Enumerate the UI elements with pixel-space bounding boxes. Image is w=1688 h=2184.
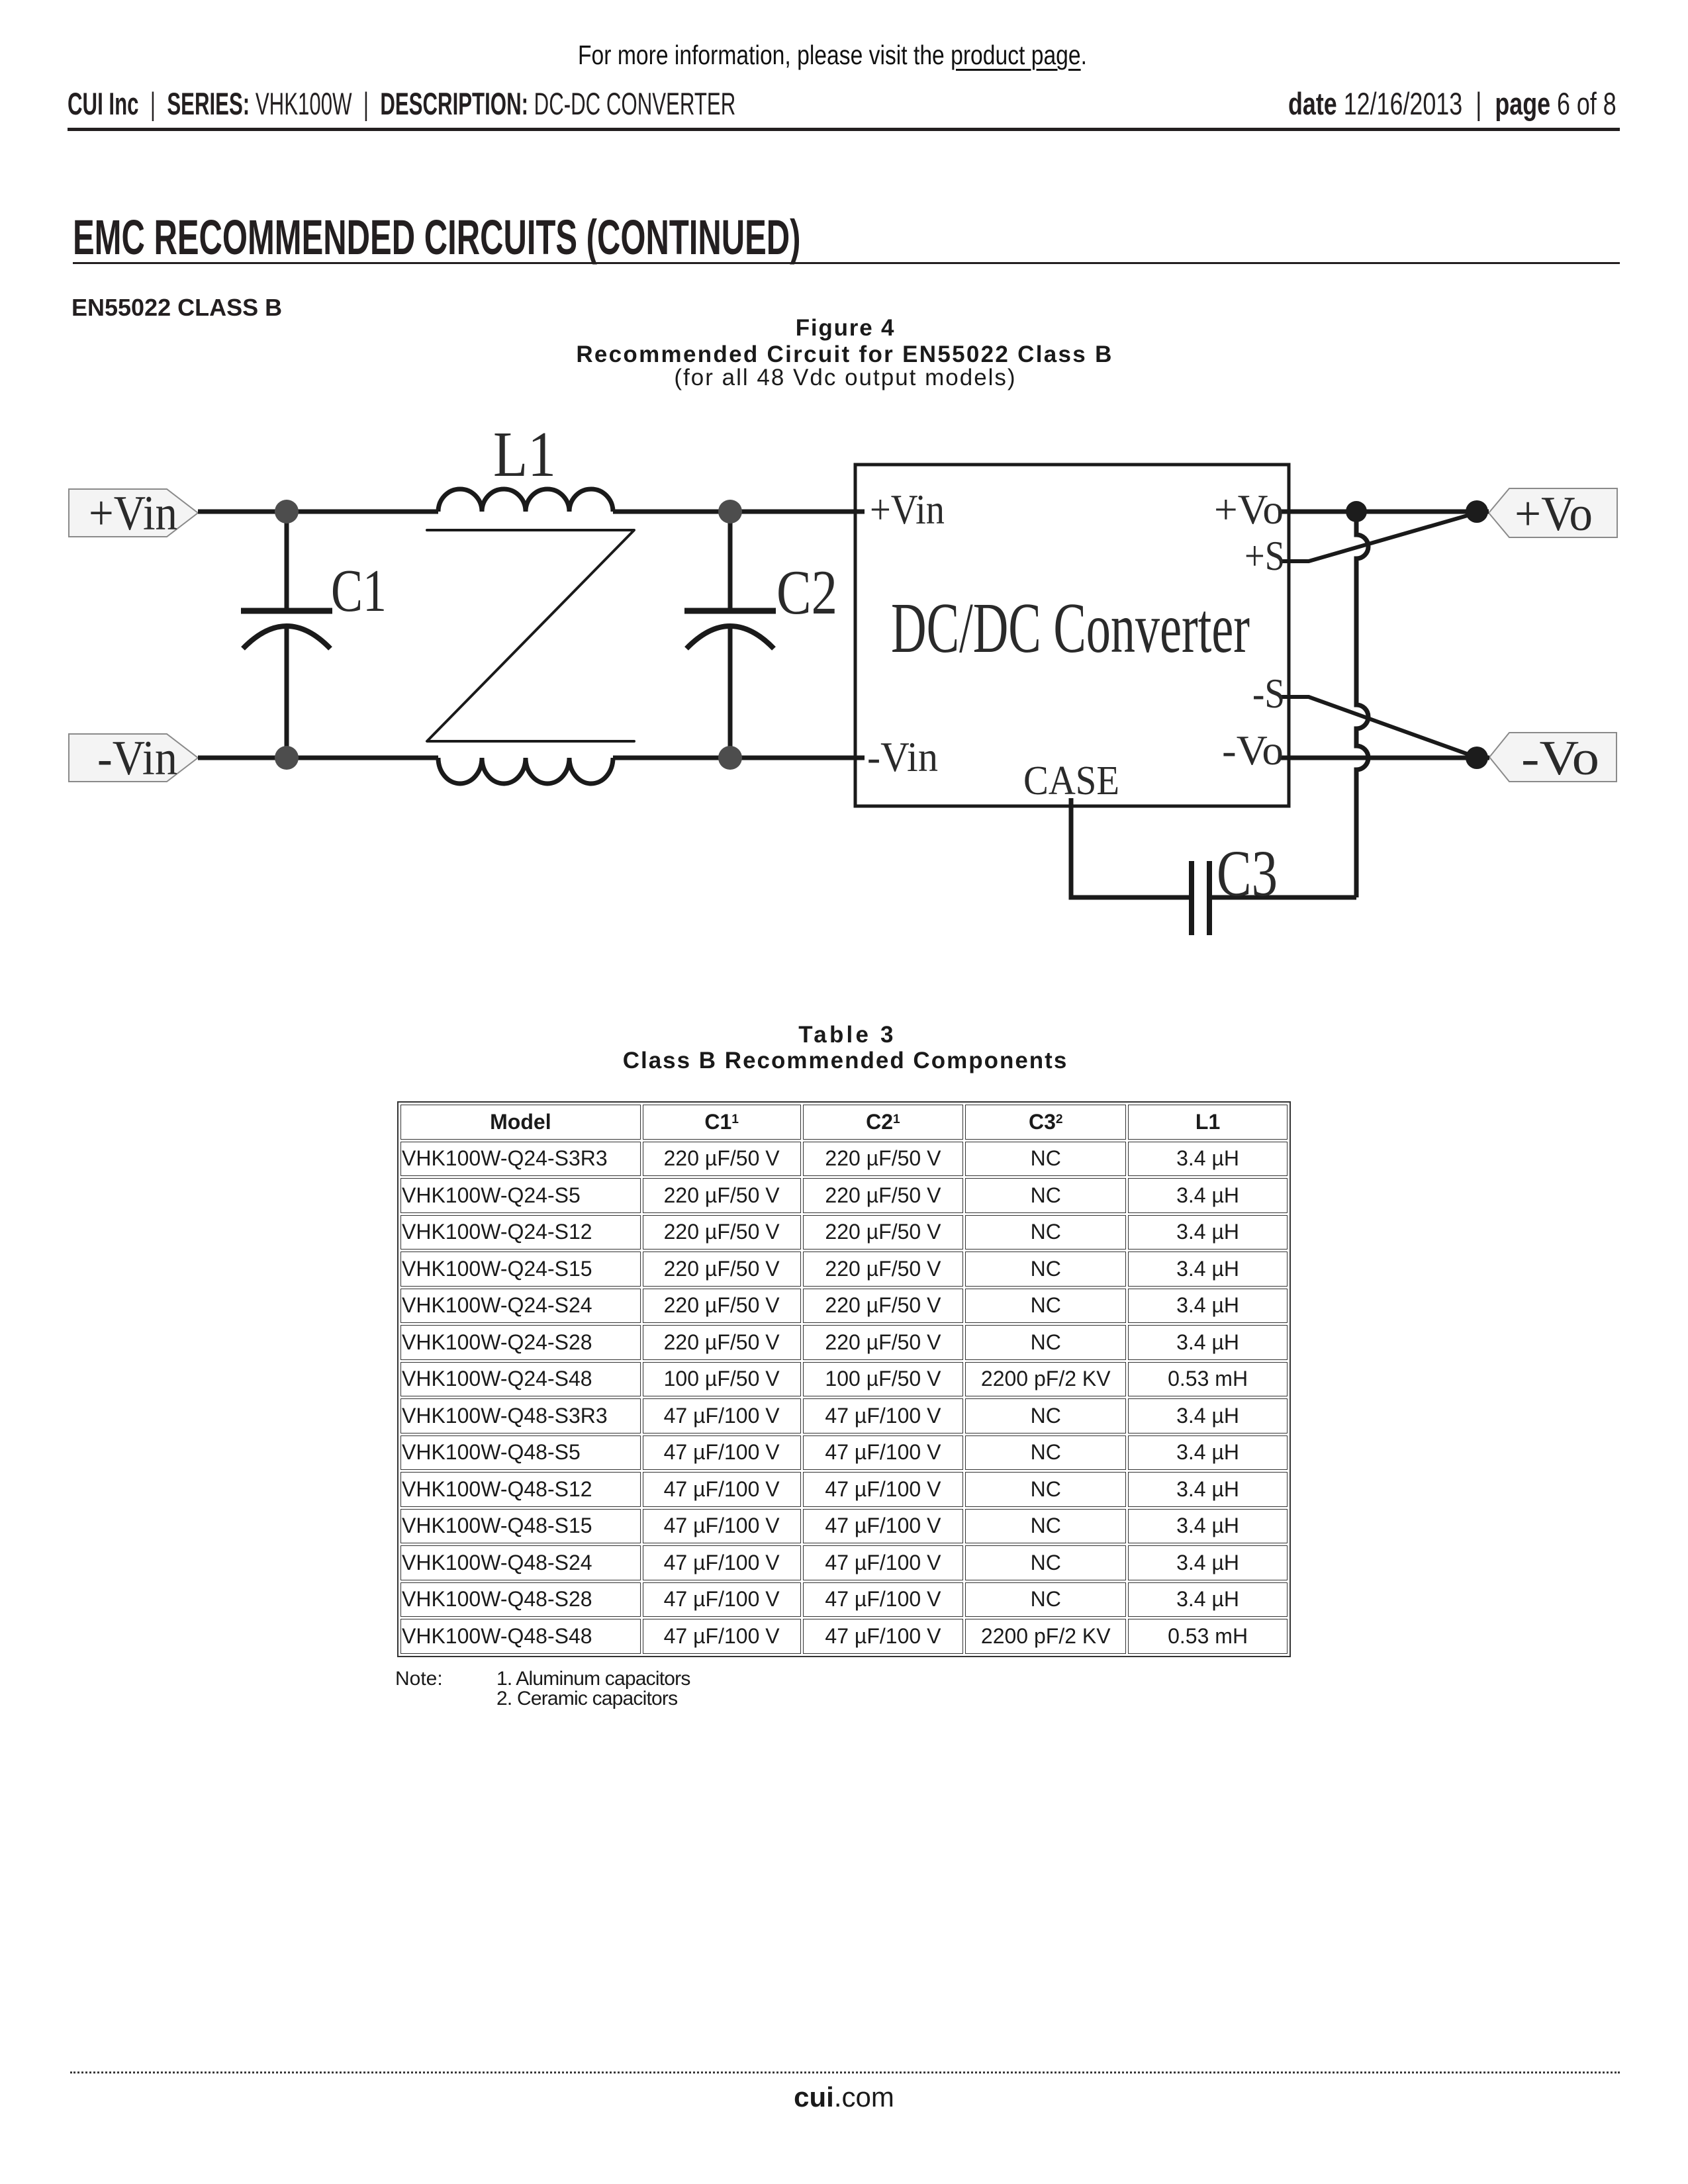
inductor L1 bottom winding (438, 758, 613, 784)
wire bottom rail left (198, 756, 438, 760)
svg-text:+Vin: +Vin (870, 486, 945, 533)
svg-text:+S: +S (1244, 532, 1285, 579)
wire top rail left (198, 510, 438, 514)
wire bottom rail mid (613, 756, 865, 760)
converter U1 box (855, 465, 1289, 806)
capacitor C1 curved plate (243, 626, 330, 649)
wire C3 right lead (1212, 895, 1356, 900)
inductor L1 core Z symbol (427, 530, 634, 741)
junction dot -Vo output (1466, 747, 1488, 769)
capacitor C1 bottom lead (285, 627, 289, 755)
svg-text:-S: -S (1252, 670, 1285, 717)
junction dot top-left C1 (275, 500, 299, 523)
subheading (71, 296, 282, 320)
inductor L1 top winding (438, 489, 613, 512)
junction dot bottom C1 (275, 746, 299, 770)
svg-text:-Vin: -Vin (867, 733, 938, 780)
node +Vin input label (69, 489, 198, 537)
svg-text:DC/DC Converter: DC/DC Converter (891, 589, 1250, 668)
capacitor C2 bottom lead (728, 627, 733, 755)
svg-text:C2: C2 (776, 557, 837, 627)
circuit schematic (0, 397, 1688, 1026)
wire +Vo rail (1280, 510, 1489, 514)
header rule (68, 128, 1620, 131)
wire -S stub (1280, 697, 1474, 756)
svg-text:L1: L1 (493, 419, 556, 490)
header meta left (68, 88, 1074, 119)
capacitor C2 curved plate (686, 626, 774, 649)
components table (397, 1101, 1291, 1657)
notes (395, 1669, 443, 1689)
node +Vo output label (1489, 488, 1617, 537)
node -Vin input label (69, 734, 198, 782)
svg-text:-Vo: -Vo (1222, 727, 1284, 774)
capacitor C1 top plate (241, 608, 332, 614)
svg-text:-Vo: -Vo (1521, 731, 1599, 786)
junction dot +Vo crossing (1346, 501, 1367, 522)
capacitor C2 top lead (728, 514, 733, 608)
header meta right (1288, 88, 1688, 119)
main heading (73, 213, 1172, 262)
wire +S stub (1280, 514, 1474, 561)
node -Vo output label (1489, 733, 1617, 782)
capacitor C1 top lead (285, 514, 289, 608)
svg-text:C1: C1 (331, 557, 387, 624)
wire CASE lead (1071, 798, 1189, 897)
wire crossing vertical with hops (1356, 512, 1368, 897)
svg-text:CASE: CASE (1023, 758, 1119, 803)
svg-text:-Vin: -Vin (97, 731, 177, 786)
capacitor C2 top plate (684, 608, 776, 614)
junction dot +Vo output (1466, 500, 1488, 523)
wire -Vo rail (1280, 756, 1489, 760)
table captions (798, 1023, 896, 1046)
wire top rail mid (613, 510, 865, 514)
footer text (794, 2083, 894, 2111)
svg-text:C3: C3 (1217, 837, 1278, 910)
capacitor C3 left plate (1189, 861, 1194, 935)
junction dot top C2 (718, 500, 742, 523)
footer dotted rule (70, 2071, 1620, 2073)
svg-text:+Vin: +Vin (89, 486, 177, 541)
capacitor C3 right plate (1207, 861, 1212, 935)
junction dot bottom C2 (718, 746, 742, 770)
top note (578, 42, 1198, 69)
svg-text:+Vo: +Vo (1515, 487, 1593, 541)
svg-text:+Vo: +Vo (1214, 486, 1284, 533)
figure captions (796, 316, 896, 340)
